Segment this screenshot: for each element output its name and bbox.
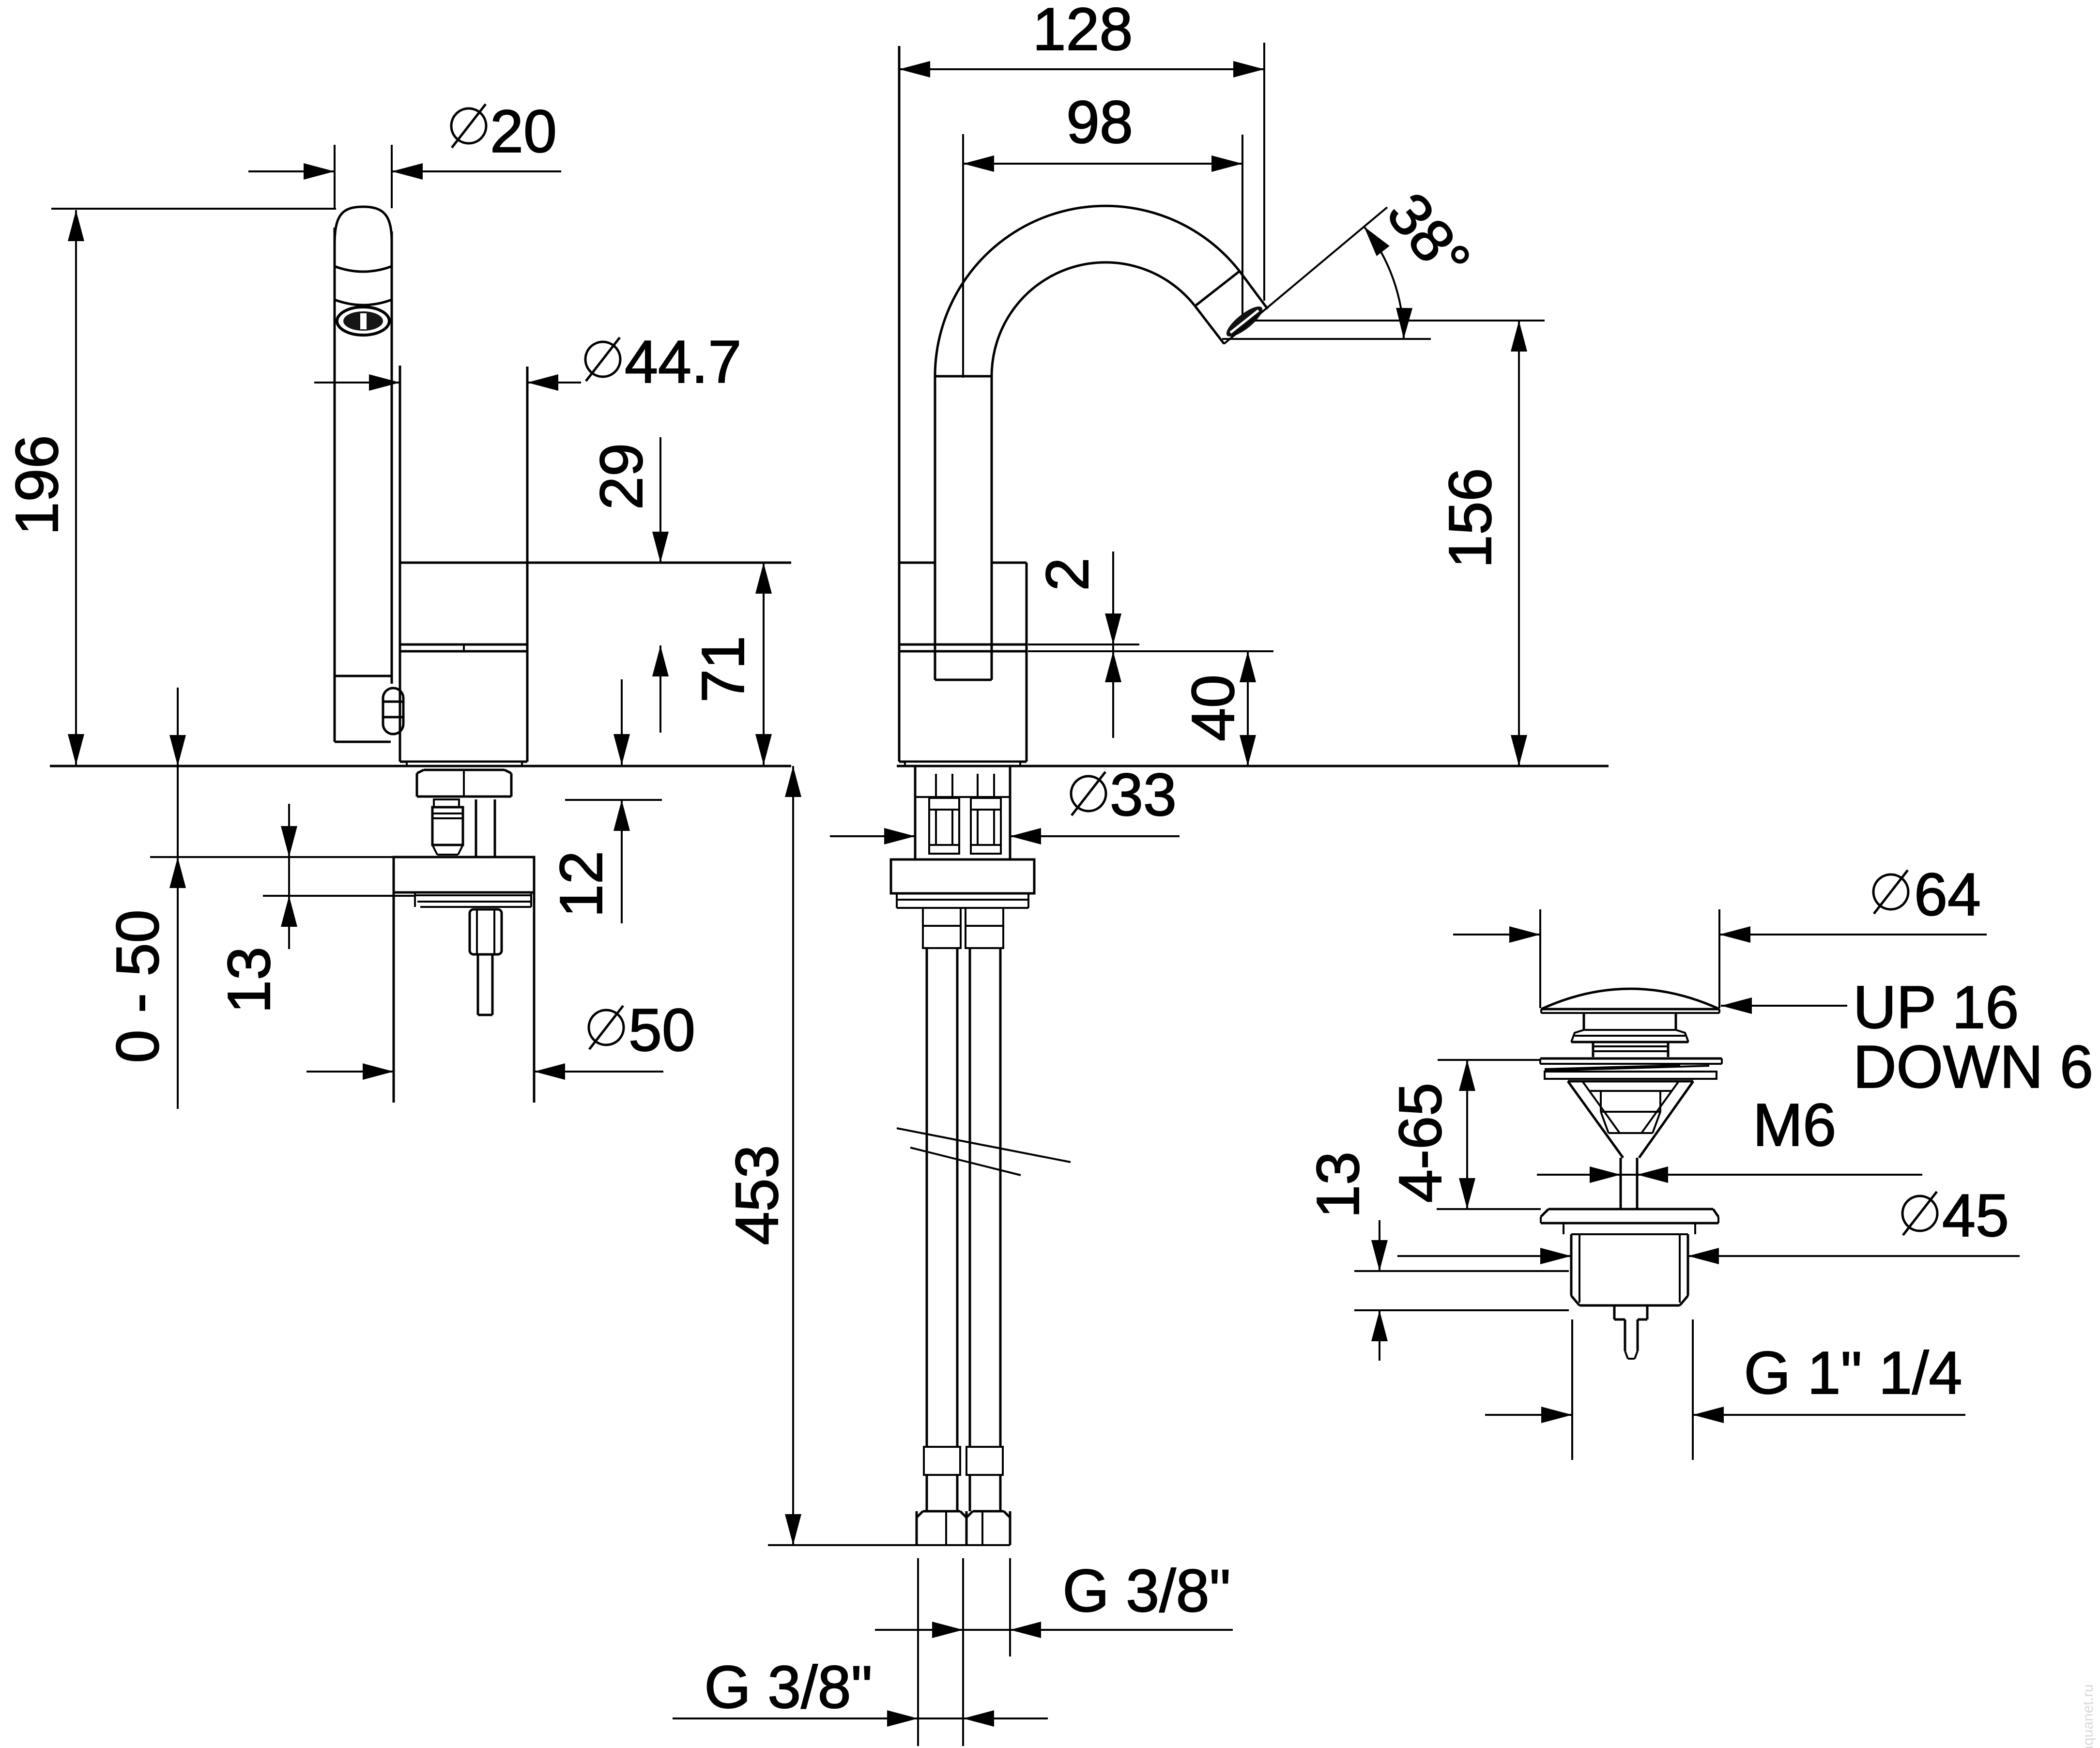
drain: collar bbox=[1584, 1029, 1676, 1031]
svg-text:98: 98 bbox=[1066, 89, 1133, 156]
dimension G1-1/4 (waste thread) bbox=[1485, 1414, 1572, 1416]
dimension 0-50 (deck thickness) bbox=[177, 688, 179, 1109]
drain: cone seat outer bbox=[1568, 1081, 1623, 1158]
svg-text:2: 2 bbox=[1034, 558, 1101, 591]
drain: stem 2 (ribbed) bbox=[1592, 1042, 1594, 1057]
middle view: hose crimp 1 bbox=[924, 1447, 960, 1475]
middle view: shank joint line bbox=[915, 796, 1010, 798]
middle view: tip aerator bbox=[1223, 302, 1267, 341]
left view: body bottom edge bbox=[400, 761, 527, 763]
middle view: body right edge bbox=[1026, 563, 1028, 762]
middle view: joint lower line bbox=[899, 650, 1027, 653]
svg-text:71: 71 bbox=[690, 636, 757, 703]
453/nuts bottom extension line bbox=[768, 1544, 1010, 1546]
left view: pull rod hex nut bbox=[470, 909, 502, 954]
middle view: riser sleeve bottom bbox=[935, 679, 992, 681]
middle view: hose end nut 1 bbox=[916, 1511, 918, 1545]
label Ø50 bbox=[589, 1006, 624, 1049]
svg-text:453: 453 bbox=[724, 1145, 791, 1245]
middle view: flange washers bbox=[896, 893, 898, 908]
label Ø20 bbox=[451, 104, 486, 148]
left view: body top edge (w/ ext to dims) bbox=[400, 562, 791, 564]
left view: 196 top extension line bbox=[51, 208, 336, 210]
middle view: hose fitting stems bbox=[935, 774, 937, 797]
middle view: riser tube left bbox=[934, 376, 936, 680]
dimension Ø20 extension lines bbox=[334, 145, 336, 208]
middle view: hose crimp 2 bbox=[966, 1447, 1003, 1475]
38 deg: horizontal reference line bbox=[1222, 338, 1431, 340]
dimension 98 extension left bbox=[962, 134, 964, 378]
left view: threaded stud bbox=[434, 799, 459, 807]
middle view: spout tip joint line bbox=[1195, 271, 1240, 306]
svg-text:13: 13 bbox=[1305, 1151, 1372, 1218]
dimension Ø20 (spout tube dia) bbox=[248, 170, 335, 172]
G3/8 extension lines bbox=[917, 1558, 919, 1746]
middle view: body shoulder left bbox=[899, 562, 935, 564]
svg-text:12: 12 bbox=[548, 851, 615, 918]
drain: threaded barrel bbox=[1570, 1234, 1573, 1296]
svg-text:45: 45 bbox=[1942, 1182, 2009, 1249]
middle view: hose fitting 2 bbox=[971, 798, 1001, 854]
left view: tube bottom end bbox=[335, 741, 391, 743]
middle view: spout inner arc bbox=[992, 262, 1195, 376]
drain: bottom pin bbox=[1624, 1319, 1626, 1351]
left view: swivel joint upper line bbox=[400, 644, 527, 646]
svg-text:20: 20 bbox=[490, 98, 557, 165]
dimension 2 (joint gap) bbox=[1112, 552, 1114, 738]
left view: mounting adapter nut bbox=[416, 773, 418, 797]
middle view: hose break mark bbox=[897, 1128, 1071, 1162]
middle view: body base lip bbox=[905, 762, 1020, 766]
left view: drain pull rod upper bbox=[475, 799, 477, 857]
svg-text:aquanet.ru: aquanet.ru bbox=[2080, 1684, 2096, 1748]
dimension 196 (height) bbox=[75, 210, 77, 765]
svg-text:196: 196 bbox=[4, 435, 71, 536]
dimension M6 (rod thread) bbox=[1537, 1174, 1922, 1176]
dimension 156 (outlet height) bbox=[1518, 321, 1520, 766]
drain: Ø64 extension lines bbox=[1539, 909, 1541, 1008]
svg-text:4-65: 4-65 bbox=[1387, 1083, 1454, 1203]
left view: handle lever bbox=[383, 688, 403, 734]
svg-text:UP 16: UP 16 bbox=[1853, 974, 2019, 1041]
drain: flange neck bbox=[1563, 1223, 1564, 1234]
dimension 13 right (basin floor) bbox=[1379, 1220, 1380, 1271]
dimension 98 (spout reach) bbox=[963, 163, 1242, 165]
left view: aerator face bbox=[337, 307, 389, 335]
dimension 128 extension right bbox=[1263, 43, 1265, 301]
svg-text:0 - 50: 0 - 50 bbox=[105, 909, 171, 1063]
dimension 128 (reach) bbox=[899, 68, 1264, 70]
dimension 13 (flange height) bbox=[288, 804, 290, 949]
dimension 29 (top section height) bbox=[659, 437, 661, 563]
middle view: hose connector 1 bbox=[923, 908, 961, 948]
middle view: hose end nut 2 bbox=[1009, 1511, 1012, 1545]
38 deg: angle arc bbox=[1364, 227, 1404, 339]
middle view: riser tube right bbox=[991, 376, 993, 680]
dimension 40 (body lower height) bbox=[1247, 651, 1249, 766]
dimension Ø45 (flange dia) bbox=[1397, 1255, 1571, 1257]
middle view: spout tip inner edge bbox=[1195, 306, 1224, 344]
middle view: riser/bend joint line bbox=[935, 375, 992, 378]
svg-text:128: 128 bbox=[1033, 0, 1133, 63]
middle view: body bottom bbox=[899, 761, 1027, 763]
middle view: hose connector 2 bbox=[966, 908, 1003, 948]
156 extension line at spout outlet bbox=[1255, 320, 1545, 322]
dimension G3/8 upper (hot hose thread) bbox=[875, 1629, 1233, 1631]
svg-text:50: 50 bbox=[628, 997, 695, 1064]
countertop line (left) bbox=[50, 765, 791, 767]
svg-text:29: 29 bbox=[588, 443, 655, 510]
middle view: spout outer arc bbox=[935, 206, 1240, 376]
left view: pull rod lower bbox=[477, 954, 479, 1015]
dimension Ø50 (cylinder dia) bbox=[307, 1071, 394, 1073]
left view: tip joint arc bbox=[335, 300, 392, 305]
middle view: mounting flange bbox=[891, 859, 1034, 893]
middle view: hose fitting 1 bbox=[929, 798, 959, 854]
left view: spout tube left edge bbox=[334, 228, 336, 742]
dimension 453 (hose length) bbox=[792, 766, 794, 1545]
svg-text:M6: M6 bbox=[1753, 1092, 1836, 1159]
label Ø44.7 bbox=[585, 337, 620, 381]
dimension Ø64 (cap dia) bbox=[1453, 934, 1540, 935]
middle view: shank left bbox=[914, 766, 917, 859]
dimension 71 (body height) bbox=[763, 563, 765, 765]
drain: lower flange plate bbox=[1548, 1208, 1713, 1211]
left view: Ø50 cylinder bbox=[393, 892, 395, 1103]
left view: mounting flange bbox=[394, 857, 534, 892]
middle view: body shoulder right bbox=[992, 562, 1027, 564]
svg-text:13: 13 bbox=[216, 947, 283, 1013]
left view: spout tube top cap bbox=[335, 207, 392, 245]
svg-text:G 1" 1/4: G 1" 1/4 bbox=[1744, 1340, 1962, 1407]
drain: cone internals bbox=[1589, 1090, 1672, 1092]
middle view: hose 1 bbox=[926, 948, 928, 1511]
dimension G3/8 lower (cold hose thread) bbox=[673, 1717, 1048, 1719]
svg-text:64: 64 bbox=[1914, 861, 1981, 928]
drain: top washer disc bbox=[1540, 1058, 1722, 1060]
drain: cone seat inner walls bbox=[1582, 1081, 1620, 1133]
left view: flange washers bbox=[414, 892, 416, 907]
drain: cap stem bbox=[1583, 1013, 1585, 1030]
dimension Ø44.7 (body dia) bbox=[314, 382, 400, 383]
middle view: spout tip outer edge bbox=[1240, 271, 1268, 309]
svg-text:G 3/8": G 3/8" bbox=[704, 1654, 872, 1721]
svg-text:33: 33 bbox=[1110, 762, 1177, 828]
countertop line (right part) bbox=[897, 765, 1609, 767]
left view: spout tube right edge bbox=[391, 231, 393, 684]
left view: swivel joint lower line bbox=[400, 650, 527, 653]
middle view: body left edge (w/ 128 ext) bbox=[898, 46, 901, 762]
left view: body left edge (w/ Ø44.7 ext) bbox=[399, 366, 401, 762]
drain: seal band bbox=[1545, 1072, 1717, 1079]
svg-text:44.7: 44.7 bbox=[625, 329, 741, 396]
left view: body right edge (w/ Ø44.7 ext) bbox=[526, 367, 529, 762]
left view: cap joint arc bbox=[335, 266, 392, 272]
G1-1/4 extension lines bbox=[1571, 1319, 1573, 1460]
middle view: hose 2 bbox=[969, 948, 971, 1511]
left view: body base lip bbox=[407, 762, 522, 766]
drain: cap dome bbox=[1541, 989, 1719, 1009]
38 deg: angled reference line (collinear with tip face) bbox=[1224, 207, 1387, 344]
dimension Ø33 (shank dia) bbox=[830, 835, 915, 837]
svg-text:156: 156 bbox=[1437, 468, 1504, 568]
left view: tube joint line bbox=[335, 675, 391, 677]
middle view: joint upper line bbox=[899, 644, 1027, 646]
label Ø45 bbox=[1902, 1192, 1937, 1235]
UP16 leader arrow bbox=[1721, 1005, 1847, 1007]
label Ø33 bbox=[1071, 772, 1106, 815]
drain: pin neck bbox=[1613, 1305, 1616, 1319]
dimension 4-65 (basin range) bbox=[1466, 1060, 1468, 1209]
svg-text:G 3/8": G 3/8" bbox=[1062, 1558, 1230, 1625]
label Ø64 bbox=[1873, 870, 1908, 914]
svg-text:DOWN 6: DOWN 6 bbox=[1853, 1034, 2093, 1101]
drain: M6 rod bbox=[1620, 1158, 1622, 1209]
svg-text:40: 40 bbox=[1180, 675, 1247, 741]
dimension 98 extension right bbox=[1242, 135, 1243, 325]
dimension 12 (shank exposed) bbox=[621, 679, 623, 765]
middle view: shank right bbox=[1009, 766, 1012, 859]
